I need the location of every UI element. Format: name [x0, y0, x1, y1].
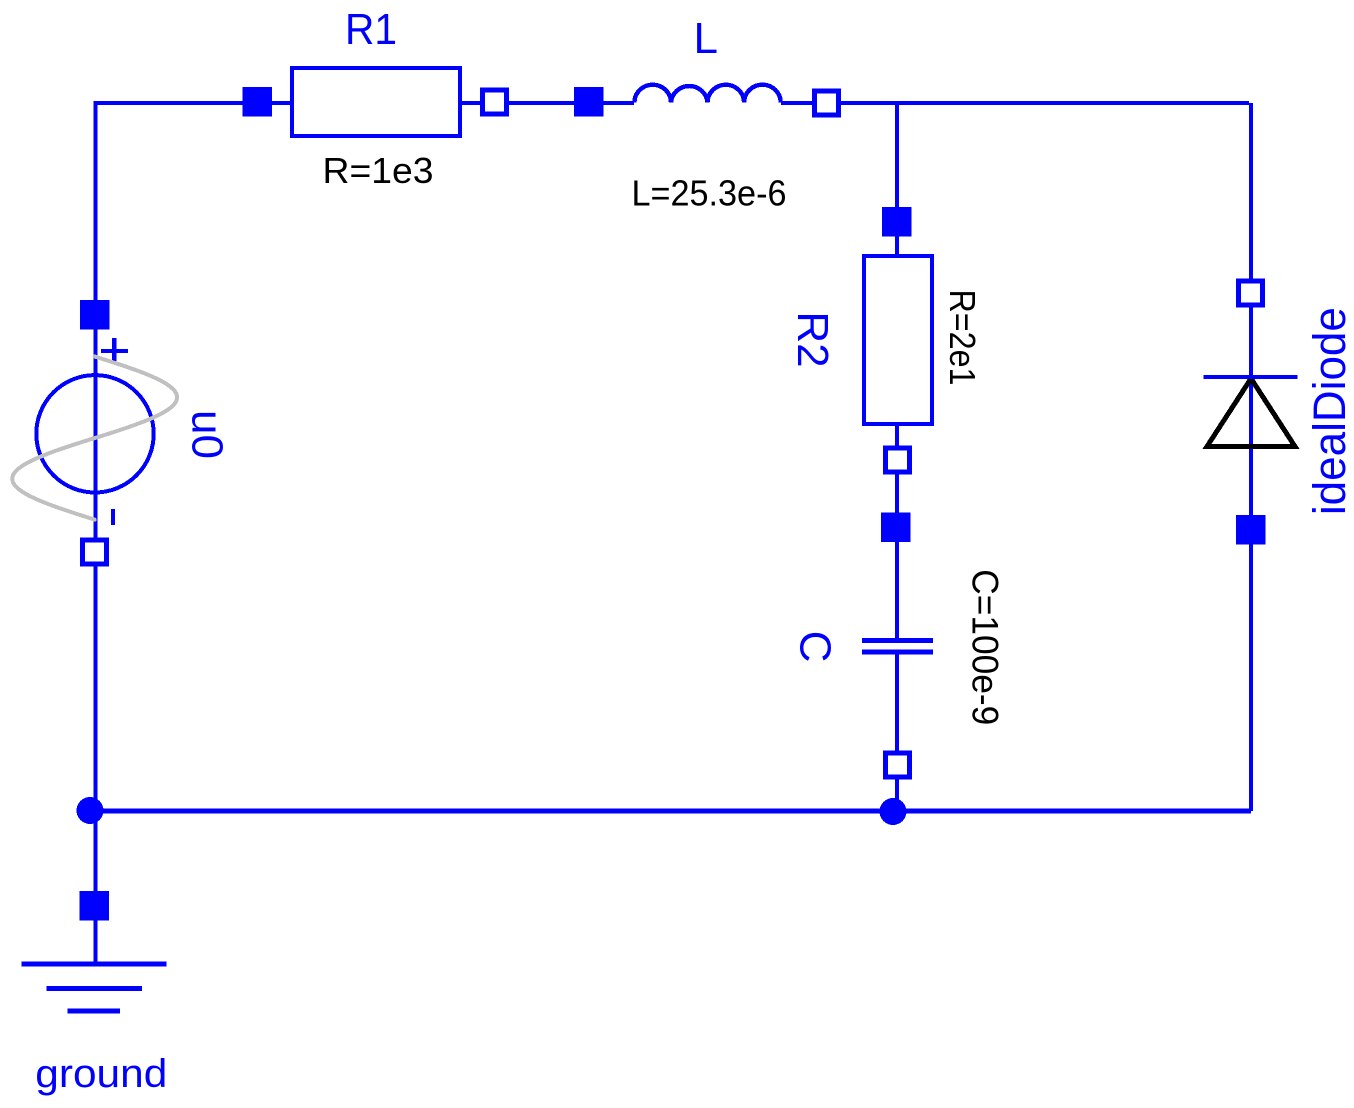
- svg-text:L: L: [694, 14, 718, 63]
- svg-text:ground: ground: [35, 1052, 167, 1096]
- svg-text:C=100e-9: C=100e-9: [965, 569, 1007, 725]
- svg-text:u0: u0: [183, 410, 232, 459]
- svg-text:R1: R1: [345, 5, 397, 54]
- svg-text:R=2e1: R=2e1: [942, 290, 983, 386]
- svg-text:R=1e3: R=1e3: [323, 150, 434, 191]
- svg-text:idealDiode: idealDiode: [1304, 307, 1354, 515]
- svg-text:C: C: [790, 631, 839, 663]
- svg-text:R2: R2: [788, 311, 837, 367]
- svg-text:L=25.3e-6: L=25.3e-6: [632, 173, 787, 214]
